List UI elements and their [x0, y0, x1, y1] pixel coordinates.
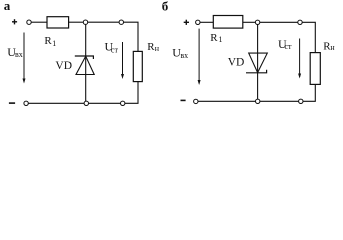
wire top: terminal to R1 (circuit a)	[31, 21, 47, 23]
resistor Rn load (circuit b)	[310, 53, 320, 85]
svg-text:н: н	[155, 44, 160, 53]
wire top right corner down to Rn (circuit b)	[302, 22, 315, 52]
node D: bottom output junction (circuit b)	[299, 99, 303, 103]
label Rn (circuit b)	[323, 40, 335, 52]
node A: top diode junction (circuit a)	[83, 20, 87, 24]
wire: diode branch vertical (circuit a)	[85, 24, 87, 101]
wire bottom: node C to terminal (circuit b)	[198, 100, 256, 102]
node D: bottom output junction (circuit a)	[121, 101, 125, 105]
wire: diode branch vertical (circuit b)	[257, 25, 259, 100]
plus sign (input +, circuit a)	[12, 19, 17, 24]
label Uvx (circuit a)	[7, 45, 23, 59]
wire top: node A to node B (circuit a)	[88, 21, 119, 23]
wire top: node A to node B (circuit b)	[260, 21, 298, 23]
plus sign (input +, circuit b)	[184, 20, 189, 25]
wire top right corner down to Rn (circuit a)	[124, 22, 139, 51]
wire bottom: node D to node C (circuit b)	[260, 100, 299, 102]
svg-text:ст: ст	[285, 42, 293, 51]
zener diode VD (circuit a): triangle up, cathode bar on top	[75, 56, 94, 75]
wire top: terminal to R1 (circuit b)	[200, 21, 213, 23]
resistor R1 (circuit a)	[47, 17, 69, 28]
arrow Ust (circuit a)	[121, 42, 124, 79]
zener diode VD (circuit b): triangle down, cathode bar at bottom	[246, 53, 267, 73]
label Ust (circuit b)	[278, 37, 292, 51]
terminal node + (circuit b)	[196, 20, 200, 24]
resistor Rn load (circuit a)	[133, 51, 142, 81]
svg-text:1: 1	[219, 35, 223, 44]
node C: bottom diode junction (circuit b)	[256, 99, 260, 103]
label Rn (circuit a)	[147, 41, 160, 53]
svg-text:вх: вх	[15, 50, 23, 59]
wire top: R1 to node A (circuit b)	[243, 21, 256, 23]
wire bottom: node C to terminal (circuit a)	[28, 102, 84, 104]
svg-text:ст: ст	[111, 46, 119, 55]
wire top: R1 to node A (circuit a)	[69, 21, 84, 23]
svg-text:R: R	[44, 35, 52, 47]
svg-text:VD: VD	[55, 60, 72, 72]
svg-text:н: н	[330, 43, 335, 52]
svg-text:R: R	[210, 32, 218, 44]
label Uvx (circuit b)	[172, 45, 188, 59]
wire: Rn bottom down to bottom rail (circuit a)	[125, 82, 138, 104]
wire bottom: node D to node C (circuit a)	[89, 102, 121, 104]
node B: top output junction (circuit b)	[298, 20, 302, 24]
wire: Rn bottom down to bottom rail (circuit b)	[303, 84, 315, 101]
resistor R1 (circuit b)	[213, 16, 243, 29]
arrow Uvx (circuit b)	[198, 29, 201, 85]
label Ust (circuit a)	[105, 39, 119, 54]
svg-text:VD: VD	[228, 57, 245, 69]
node B: top output junction (circuit a)	[119, 20, 123, 24]
terminal node - (circuit b)	[194, 99, 198, 103]
minus sign (input -, circuit a)	[9, 102, 15, 104]
svg-text:б: б	[162, 0, 169, 14]
terminal node - (circuit a)	[24, 101, 28, 105]
node A: top diode junction (circuit b)	[255, 20, 259, 24]
terminal node + (circuit a)	[27, 20, 31, 24]
svg-text:а: а	[4, 0, 11, 13]
svg-text:1: 1	[52, 39, 56, 48]
svg-text:вх: вх	[180, 51, 188, 60]
label R1 (circuit b)	[210, 32, 222, 44]
minus sign (input -, circuit b)	[181, 99, 186, 101]
arrow Ust (circuit b)	[298, 39, 301, 79]
label R1 (circuit a)	[44, 35, 56, 48]
arrow Uvx (circuit a)	[23, 33, 26, 84]
node C: bottom diode junction (circuit a)	[84, 101, 88, 105]
